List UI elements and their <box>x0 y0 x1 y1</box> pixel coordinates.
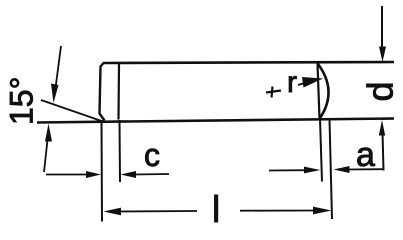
15° chamfer extension slant line <box>41 100 103 122</box>
dimension d top arrow <box>379 6 386 62</box>
extension line (crown start, for a) <box>320 119 322 182</box>
label l <box>212 189 220 230</box>
extension line B (chamfer depth, for c) <box>119 120 122 182</box>
svg-text:d: d <box>360 81 401 101</box>
pin top edge (with d extension line) <box>103 62 394 63</box>
label c <box>144 137 160 173</box>
dimension c right arrow <box>121 171 170 178</box>
pin left end face <box>100 63 105 121</box>
label d <box>360 81 401 101</box>
svg-text:a: a <box>356 136 375 174</box>
extension line A (pin left end, for c and l) <box>101 120 104 222</box>
r leader arrow to crown arc <box>298 77 323 88</box>
pin bottom edge (extended left for 15° leg and right for d extension) <box>37 119 394 123</box>
label 15° <box>4 77 40 125</box>
extension line (pin right end apex, for a and l) <box>330 119 333 219</box>
dimension a right arrow <box>334 166 384 173</box>
label a <box>356 136 375 174</box>
dimension l line right segment with arrow <box>240 207 332 215</box>
svg-text:c: c <box>144 137 160 173</box>
dimension d bottom arrow (joined to a dimension corner) <box>379 120 385 171</box>
chamfer edge line (left end) <box>117 64 120 120</box>
svg-text:15°: 15° <box>4 77 40 125</box>
crowned end arc r <box>318 64 329 118</box>
svg-text:r: r <box>287 66 297 99</box>
dimension c left arrow <box>46 171 101 178</box>
svg-text:l: l <box>212 189 220 229</box>
plus mark before r <box>266 87 281 98</box>
15° angle arrow (upper, pointing down to slant line) <box>51 46 61 103</box>
dimension a left arrow <box>269 167 321 174</box>
dimension l line left segment with arrow <box>104 208 198 216</box>
15° angle arrow (lower, pointing up to bottom edge extension) <box>44 124 52 173</box>
right end face straight line <box>318 64 320 119</box>
label r <box>287 66 297 99</box>
